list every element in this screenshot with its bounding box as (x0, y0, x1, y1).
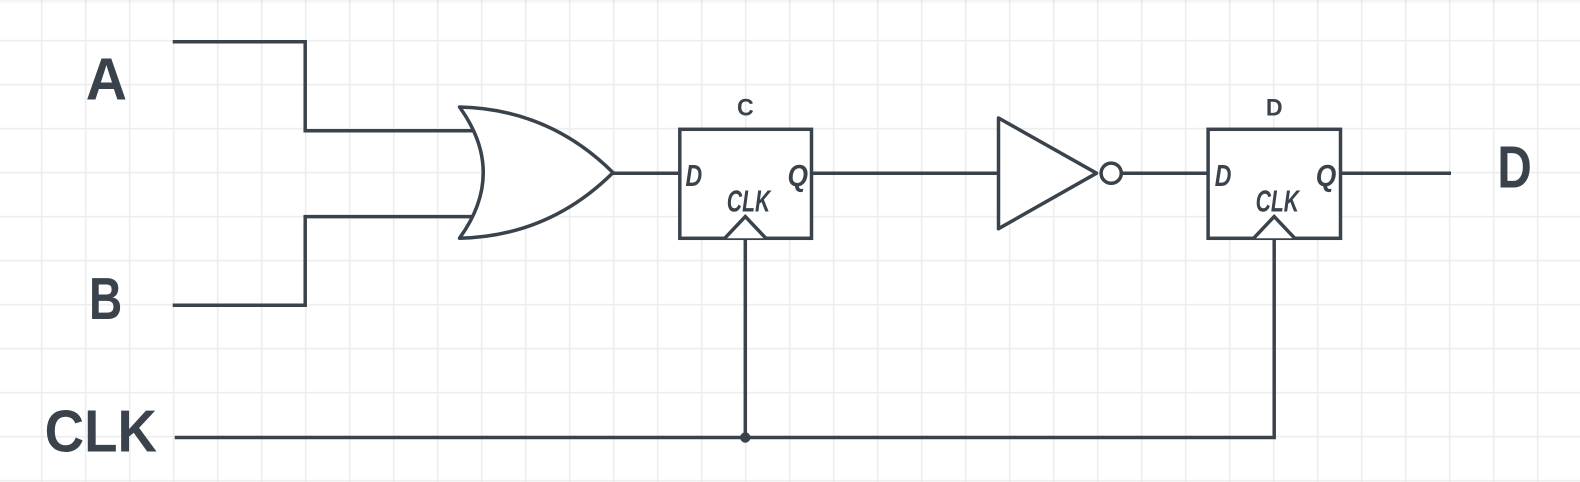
wire: CLK trunk to flip-flop D clock (175, 238, 1275, 437)
wire: OR gate output to flip-flop C D input (613, 171, 680, 175)
flip-flop D body (1208, 129, 1340, 238)
svg-text:D: D (1266, 94, 1283, 121)
svg-text:D: D (686, 159, 703, 193)
node: CLK junction dot (740, 432, 750, 442)
svg-text:B: B (89, 265, 122, 332)
flip-flop C clock edge triangle (725, 217, 766, 239)
svg-text:C: C (737, 94, 754, 121)
or-gate U1 (460, 107, 614, 238)
wire: CLK branch to flip-flop C clock (744, 238, 748, 437)
svg-text:CLK: CLK (727, 184, 772, 218)
svg-text:D: D (1497, 133, 1531, 200)
inverter U2 (999, 118, 1097, 229)
svg-text:CLK: CLK (45, 397, 157, 464)
wire: input B lead to OR gate input 2 (173, 217, 478, 306)
wire: flip-flop D Q output to output D (1341, 171, 1452, 175)
flip-flop D clock edge triangle (1254, 217, 1295, 239)
wire: inverter output to flip-flop D D input (1121, 171, 1208, 175)
wire: flip-flop C Q output to inverter input (812, 171, 999, 175)
flip-flop C body (680, 129, 812, 238)
svg-text:D: D (1215, 159, 1232, 193)
svg-text:Q: Q (1316, 159, 1337, 193)
inverter U2 output bubble (1101, 163, 1121, 183)
svg-text:Q: Q (788, 159, 809, 193)
wire: input A lead to OR gate input 1 (173, 42, 478, 131)
svg-text:A: A (86, 46, 127, 113)
svg-text:CLK: CLK (1256, 184, 1301, 218)
